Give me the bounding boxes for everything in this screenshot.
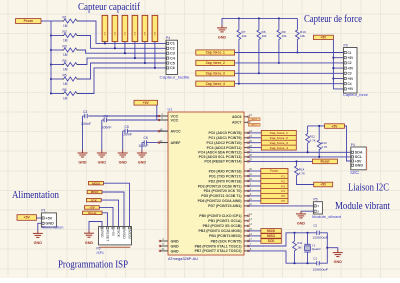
wire C3 left — [83, 115, 85, 117]
wire PC2 to Cap_force_3 — [248, 142, 261, 144]
svg-text:+5V: +5V — [320, 183, 327, 187]
svg-text:P4: P4 — [166, 36, 170, 40]
svg-text:GND: GND — [171, 244, 180, 248]
touch pad P1 — [102, 15, 108, 41]
svg-text:PD5 (PCINT21 OC0B T1): PD5 (PCINT21 OC0B T1) — [201, 194, 241, 198]
svg-text:R4: R4 — [63, 59, 67, 63]
svg-text:GND: GND — [119, 161, 128, 165]
svg-text:I2C: I2C — [350, 170, 359, 175]
svg-text:P5: P5 — [281, 194, 285, 198]
junction gnd tap — [326, 247, 328, 249]
svg-text:4.7K: 4.7K — [299, 172, 305, 176]
wire PC3 to Cap_force_4 — [248, 147, 261, 149]
svg-text:22000pF: 22000pF — [313, 267, 329, 271]
net label MISO — [261, 234, 281, 239]
net label MOSI — [261, 229, 281, 234]
wire crystal right vertical — [319, 233, 327, 263]
svg-text:GND: GND — [85, 241, 94, 245]
wire MOSI to ISP pin — [103, 183, 129, 226]
touch pad P4 — [132, 15, 138, 41]
svg-text:P6: P6 — [153, 31, 157, 35]
wire Cap_force_1 to P3 pin C1 — [235, 52, 344, 54]
supply +5V R14 — [314, 182, 333, 187]
wire PC1 to Cap_force_2 — [248, 137, 261, 139]
connector P1 Alimentation — [41, 209, 63, 230]
ic right pin stubs — [244, 114, 252, 252]
wire C5 to ground — [122, 131, 124, 151]
wire PD7 to module vibrant — [248, 205, 313, 207]
svg-text:P3: P3 — [281, 184, 285, 188]
connector P4 I2C — [350, 143, 366, 175]
wire R3 to connector pin C3 — [79, 50, 166, 53]
svg-text:GND: GND — [34, 241, 43, 245]
label R5 1M — [63, 73, 68, 86]
junction +5V pin — [332, 77, 334, 79]
svg-text:Alimentation: Alimentation — [42, 226, 64, 230]
capacitor C5 — [125, 129, 127, 133]
junction bus R9 — [278, 17, 280, 19]
label R6 1M — [63, 88, 68, 101]
svg-text:GND: GND — [297, 222, 306, 226]
i2c connector red edge — [366, 147, 368, 170]
wire R8 down to line C3 — [258, 43, 260, 74]
svg-text:PD4 (PCINT20 XCK T0): PD4 (PCINT20 XCK T0) — [204, 189, 242, 193]
svg-text:Pcom: Pcom — [270, 169, 278, 173]
svg-text:100nF: 100nF — [102, 126, 112, 130]
net label Pcom — [16, 19, 42, 24]
supply +5V I2C — [325, 124, 345, 129]
wire pad P1 down — [104, 42, 106, 44]
label C6 100nF — [138, 136, 148, 148]
junction R13 +5V — [318, 125, 320, 127]
ground module vibrant — [296, 211, 306, 225]
net label Cap_force_1 — [196, 50, 235, 55]
svg-text:C3: C3 — [348, 72, 352, 76]
junction pad P1 — [104, 42, 106, 44]
label R2 1M — [63, 30, 68, 43]
svg-text:U1: U1 — [168, 108, 173, 112]
supply +5V force — [313, 35, 333, 39]
wire to crystal ground — [327, 248, 338, 251]
junction R11 top — [293, 232, 295, 234]
wire +5V stub — [333, 57, 343, 59]
resistor R3 — [62, 48, 79, 52]
net label ADC7 — [249, 123, 261, 126]
svg-text:PB5 (SCK PCINT5): PB5 (SCK PCINT5) — [211, 239, 242, 243]
svg-text:10k: 10k — [262, 34, 267, 38]
svg-text:MISO: MISO — [91, 190, 99, 194]
touch pad P3 — [122, 15, 128, 41]
label R11 1M — [297, 241, 303, 249]
svg-text:R8: R8 — [262, 30, 266, 34]
svg-text:PB2 (PCINT2 SS OC1B): PB2 (PCINT2 SS OC1B) — [203, 224, 242, 228]
svg-text:P4: P4 — [281, 189, 285, 193]
svg-text:MISO: MISO — [267, 234, 276, 238]
wire SCL — [248, 156, 350, 158]
ground C4 — [97, 150, 107, 164]
svg-text:Module vibrant: Module vibrant — [335, 201, 390, 212]
svg-text:Cap_force_1: Cap_force_1 — [270, 131, 288, 135]
label C1 22000pF — [313, 256, 329, 271]
svg-text:Alimentation: Alimentation — [12, 190, 60, 201]
wire bus to R8 — [258, 18, 260, 28]
junction Y1 top — [306, 232, 308, 234]
svg-text:Capteur capacitif: Capteur capacitif — [78, 2, 140, 13]
resistor R2 — [62, 34, 79, 38]
svg-text:PD2 (INT0 PCINT18): PD2 (INT0 PCINT18) — [208, 179, 241, 183]
wire C4 to ground — [101, 120, 103, 151]
touch pad P6 — [152, 15, 158, 41]
svg-text:+5V: +5V — [111, 230, 115, 237]
label R7 10k — [242, 30, 247, 38]
label R4 1M — [63, 59, 68, 72]
svg-text:Cap_force_3: Cap_force_3 — [270, 141, 288, 145]
svg-text:1M: 1M — [63, 82, 68, 86]
label Y1 Quartz — [312, 243, 322, 251]
svg-text:AVCC: AVCC — [171, 130, 182, 134]
svg-text:R1: R1 — [63, 15, 67, 19]
svg-text:MISO: MISO — [122, 230, 126, 239]
ground ISP — [84, 231, 94, 245]
svg-text:1M: 1M — [63, 96, 68, 100]
pin VCC 6 — [159, 119, 168, 121]
pin AREF 20 — [159, 142, 168, 144]
resistor R5 — [62, 77, 79, 81]
wire SDA — [248, 151, 350, 153]
junction pad P6 — [154, 67, 156, 69]
wire R7 down to line C4 — [238, 43, 240, 84]
net label ADC6 — [249, 118, 261, 121]
svg-text:Capteur_force: Capteur_force — [343, 93, 368, 97]
junction R11 bottom — [293, 262, 295, 264]
svg-text:Cap_force_1: Cap_force_1 — [206, 51, 225, 55]
wire force top bus — [222, 18, 297, 25]
label C4 100nF — [102, 114, 112, 129]
svg-text:R10: R10 — [300, 30, 306, 34]
junction bus R7 — [238, 17, 240, 19]
svg-text:P2: P2 — [113, 31, 117, 35]
svg-text:C5: C5 — [125, 125, 129, 129]
svg-text:PC1 (ADC1 PCINT9): PC1 (ADC1 PCINT9) — [208, 136, 241, 140]
svg-text:PD1 (TXD PCINT17): PD1 (TXD PCINT17) — [209, 174, 241, 178]
svg-text:PD6 (PCINT22 OC0A AIN0): PD6 (PCINT22 OC0A AIN0) — [198, 199, 242, 203]
wire C6 left — [142, 142, 144, 144]
svg-text:P5: P5 — [313, 198, 317, 202]
wire +5V stub — [333, 67, 343, 69]
resistor R7 — [237, 29, 241, 43]
net label group Cap_force 1-4 at ic — [261, 130, 296, 150]
wire bus vertical — [50, 21, 52, 94]
junction R12 SDA — [307, 151, 309, 153]
label R1 1M — [63, 15, 68, 28]
svg-text:PB0 (PCINT0 CLKO ICP1): PB0 (PCINT0 CLKO ICP1) — [199, 214, 241, 218]
svg-text:SCK: SCK — [268, 239, 275, 243]
label C2 22000pF — [313, 224, 329, 240]
junction bus R8 — [258, 17, 260, 19]
svg-text:PD0 (RXD PCINT16): PD0 (RXD PCINT16) — [209, 169, 242, 173]
svg-text:Pcom: Pcom — [24, 19, 33, 23]
junction R8 line — [258, 72, 260, 74]
svg-text:PB7 (PCINT7 XTAL2 TOSC2): PB7 (PCINT7 XTAL2 TOSC2) — [195, 249, 242, 253]
svg-text:C6: C6 — [144, 136, 148, 140]
junction bus R5 — [50, 78, 52, 80]
wire bus to R2 — [51, 35, 62, 37]
wire MOSI — [248, 230, 261, 232]
capacitor C6 — [144, 140, 146, 144]
svg-text:ADC7: ADC7 — [252, 124, 258, 127]
svg-text:ADC7: ADC7 — [232, 121, 242, 125]
wire Reset net — [248, 160, 312, 162]
supply +5V IC — [134, 100, 158, 105]
svg-text:1M: 1M — [63, 53, 68, 57]
svg-text:+5V: +5V — [348, 66, 355, 70]
svg-text:100nF: 100nF — [138, 144, 148, 148]
svg-text:C1: C1 — [313, 256, 317, 260]
svg-text:GND: GND — [98, 161, 107, 165]
wire C6 right — [146, 142, 168, 144]
wire Pcom to bus — [41, 20, 51, 22]
junction VCC1 — [156, 115, 158, 117]
junction bus R6 — [50, 92, 52, 94]
wire pad P6 down — [154, 42, 156, 68]
svg-text:R5: R5 — [63, 73, 67, 77]
svg-text:GND: GND — [334, 260, 343, 264]
svg-text:C1: C1 — [170, 42, 175, 46]
wire Cap_force_2 to P3 pin C2 — [235, 62, 344, 64]
svg-text:PC2 (ADC2 PCINT10): PC2 (ADC2 PCINT10) — [206, 141, 241, 145]
junction bus R3 — [50, 49, 52, 51]
svg-text:+5V: +5V — [348, 77, 355, 81]
wires PD0-PD6 to Pcom group — [248, 171, 260, 201]
junction pad P3 — [124, 52, 126, 54]
wire P1 ground — [38, 223, 42, 231]
wire XTAL2 from PB7 — [248, 251, 316, 263]
svg-text:Reset: Reset — [88, 211, 96, 215]
connector P3 Capteur_force — [343, 43, 368, 97]
wire VCC1 — [157, 115, 168, 117]
svg-text:MOSI: MOSI — [267, 229, 275, 233]
svg-text:SDA: SDA — [355, 151, 363, 155]
svg-text:R9: R9 — [282, 30, 286, 34]
svg-text:C5: C5 — [170, 61, 175, 65]
wire bus to R9 — [278, 18, 280, 28]
resistor R13 — [317, 126, 321, 157]
resistor R14 — [295, 161, 314, 184]
svg-text:SCK: SCK — [91, 198, 98, 202]
wire R5 to connector pin C5 — [79, 63, 166, 79]
resistor R12 — [306, 126, 310, 152]
resistor R11 — [293, 233, 297, 263]
wire bus to R3 — [51, 49, 62, 51]
svg-text:C2: C2 — [348, 61, 352, 65]
touch pad P2 — [112, 15, 118, 41]
svg-text:C4: C4 — [348, 82, 352, 86]
svg-text:Quartz: Quartz — [312, 247, 322, 251]
net label Cap_force_2 — [196, 60, 235, 65]
wire ISP ground — [89, 222, 102, 231]
wire R9 down to line C2 — [278, 43, 280, 63]
svg-text:AREF: AREF — [171, 141, 182, 145]
label R12 4.7K — [310, 135, 316, 143]
svg-text:P6: P6 — [281, 199, 285, 203]
wire R1 to connector pin C1 — [79, 21, 166, 43]
svg-text:ADC6: ADC6 — [252, 118, 258, 121]
svg-text:GND: GND — [355, 164, 364, 168]
junction R9 line — [278, 62, 280, 64]
net label MOSI isp — [89, 181, 104, 185]
ic right pin labels — [195, 115, 242, 253]
svg-text:Liaison I2C: Liaison I2C — [348, 183, 389, 194]
label C5 100nF — [122, 125, 132, 137]
wire C3 to ground — [82, 116, 84, 151]
wire MISO to ISP pin — [102, 192, 124, 227]
wire C4 left — [102, 119, 104, 121]
wire C3 right — [88, 115, 157, 117]
svg-text:4.7K: 4.7K — [310, 139, 316, 143]
svg-text:+5V: +5V — [321, 36, 328, 40]
svg-text:C4: C4 — [104, 114, 108, 118]
net label Reset isp — [83, 211, 102, 215]
ic U1 ATmega328P-AU body — [168, 112, 244, 255]
net label SCK — [261, 239, 281, 244]
capacitor C2 — [317, 231, 319, 235]
wire R10 down to line C1 — [296, 43, 298, 53]
junction R7 line — [238, 83, 240, 85]
wire bus to R10 — [296, 18, 298, 28]
resistor R8 — [257, 29, 261, 43]
svg-text:+5V: +5V — [89, 206, 94, 210]
wire +5V to ISP pin — [99, 207, 113, 226]
label R13 4.7K — [321, 141, 327, 149]
svg-text:P3: P3 — [123, 31, 127, 35]
wire MISO — [248, 235, 261, 237]
pin VCC 4 — [159, 115, 168, 117]
svg-text:GND: GND — [78, 161, 87, 165]
svg-text:PC6 (RESET PCINT14): PC6 (RESET PCINT14) — [204, 160, 241, 164]
svg-text:10k: 10k — [300, 34, 305, 38]
svg-text:C2: C2 — [170, 47, 175, 51]
junction R14 reset — [295, 160, 297, 162]
svg-text:C3: C3 — [170, 52, 175, 56]
label R8 10k — [262, 30, 267, 38]
connector ISP1 — [97, 227, 132, 255]
svg-text:Module_vibrant: Module_vibrant — [312, 215, 341, 219]
svg-text:PC5 (ADC5 SCL PCINT13): PC5 (ADC5 SCL PCINT13) — [199, 155, 242, 159]
svg-text:+5V: +5V — [348, 87, 355, 91]
resistor R6 — [62, 92, 79, 96]
wire bus to R4 — [51, 64, 62, 66]
ground crystal — [333, 250, 343, 264]
junction bus R4 — [50, 63, 52, 65]
svg-text:P4: P4 — [133, 31, 137, 35]
svg-text:PB3 (PCINT3 OC2A MOSI): PB3 (PCINT3 OC2A MOSI) — [198, 229, 241, 233]
svg-text:P1: P1 — [103, 31, 107, 35]
ground alimentation — [33, 231, 43, 245]
wire R6 to connector pin C6 — [79, 68, 166, 94]
svg-text:4.7K: 4.7K — [321, 145, 327, 149]
net label group Pcom P1-P6 — [261, 169, 288, 204]
svg-text:C3: C3 — [83, 110, 87, 114]
svg-text:+5V: +5V — [332, 124, 339, 128]
svg-text:R3: R3 — [63, 44, 67, 48]
svg-text:+5V: +5V — [24, 216, 31, 220]
svg-text:Cap_force_2: Cap_force_2 — [206, 61, 225, 65]
svg-text:+5V: +5V — [143, 101, 150, 105]
svg-text:GND: GND — [138, 161, 147, 165]
resistor R10 — [296, 29, 300, 43]
net label Cap_force_3 — [196, 71, 235, 76]
svg-text:C1: C1 — [348, 51, 352, 55]
junction Y1 bottom — [306, 262, 308, 264]
wire +5V vertical force — [333, 40, 343, 89]
ground C5 — [118, 150, 128, 164]
label R3 1M — [63, 44, 68, 57]
svg-text:PB1 (PCINT1 OC1A): PB1 (PCINT1 OC1A) — [208, 219, 241, 223]
crystal Y1 — [304, 233, 311, 263]
svg-text:MOSI: MOSI — [127, 230, 131, 239]
wire +5V to P1 — [36, 217, 41, 219]
ic left pin labels — [171, 114, 182, 253]
svg-text:Cap_force_3: Cap_force_3 — [206, 72, 225, 76]
wire pad P3 down — [124, 42, 126, 54]
svg-text:Capteur de force: Capteur de force — [304, 14, 362, 25]
svg-text:PB6 (PCINT6 XTAL1 TOSC1): PB6 (PCINT6 XTAL1 TOSC1) — [195, 244, 242, 248]
wire PC0 to Cap_force_1 — [248, 132, 261, 134]
junction R13 SCL — [318, 156, 320, 158]
wire SCK to ISP pin — [101, 200, 118, 226]
svg-text:+5V: +5V — [348, 56, 355, 60]
wire XTAL1 from PB6 — [248, 233, 316, 246]
pins GND 3 5 21 — [159, 238, 168, 252]
junction pad P5 — [144, 62, 146, 64]
label R9 10k — [282, 30, 287, 38]
resistor R4 — [62, 63, 79, 67]
svg-text:1M: 1M — [297, 245, 302, 249]
wire bus to R1 — [51, 20, 62, 22]
ground C6 — [137, 150, 147, 164]
net label SCK isp — [86, 198, 101, 202]
net label Reset — [313, 159, 338, 164]
label R10 10k — [300, 30, 306, 38]
svg-text:P2: P2 — [281, 179, 285, 183]
svg-text:Programmation ISP: Programmation ISP — [58, 260, 128, 271]
svg-text:P1: P1 — [281, 174, 285, 178]
ground force bus — [217, 25, 227, 39]
svg-text:C2: C2 — [313, 224, 317, 228]
svg-text:PC0 (ADC0 PCINT8): PC0 (ADC0 PCINT8) — [208, 131, 241, 135]
svg-text:1M: 1M — [63, 38, 68, 42]
wire Cap_force_3 to P3 pin C3 — [235, 72, 344, 74]
capacitor C3 — [85, 114, 87, 118]
svg-text:100nF: 100nF — [122, 133, 132, 137]
junction R10 line — [296, 51, 298, 53]
svg-text:GND: GND — [100, 230, 104, 238]
svg-text:PC3 (ADC3 PCINT11): PC3 (ADC3 PCINT11) — [207, 146, 242, 150]
svg-text:R6: R6 — [63, 88, 67, 92]
junction pad P4 — [134, 57, 136, 59]
svg-text:GND: GND — [218, 36, 227, 40]
svg-text:P6: P6 — [97, 246, 101, 250]
junction +5V pin — [332, 57, 334, 59]
supply +5V alim — [17, 215, 36, 221]
wire C5 right — [128, 130, 169, 132]
svg-text:P1: P1 — [41, 209, 45, 213]
svg-text:P3: P3 — [344, 43, 348, 47]
svg-text:SCK: SCK — [116, 230, 120, 238]
svg-text:P5: P5 — [143, 31, 147, 35]
svg-text:PD3 (PCINT19 OC2B INT1): PD3 (PCINT19 OC2B INT1) — [198, 184, 242, 188]
capacitor C4 — [104, 118, 106, 122]
